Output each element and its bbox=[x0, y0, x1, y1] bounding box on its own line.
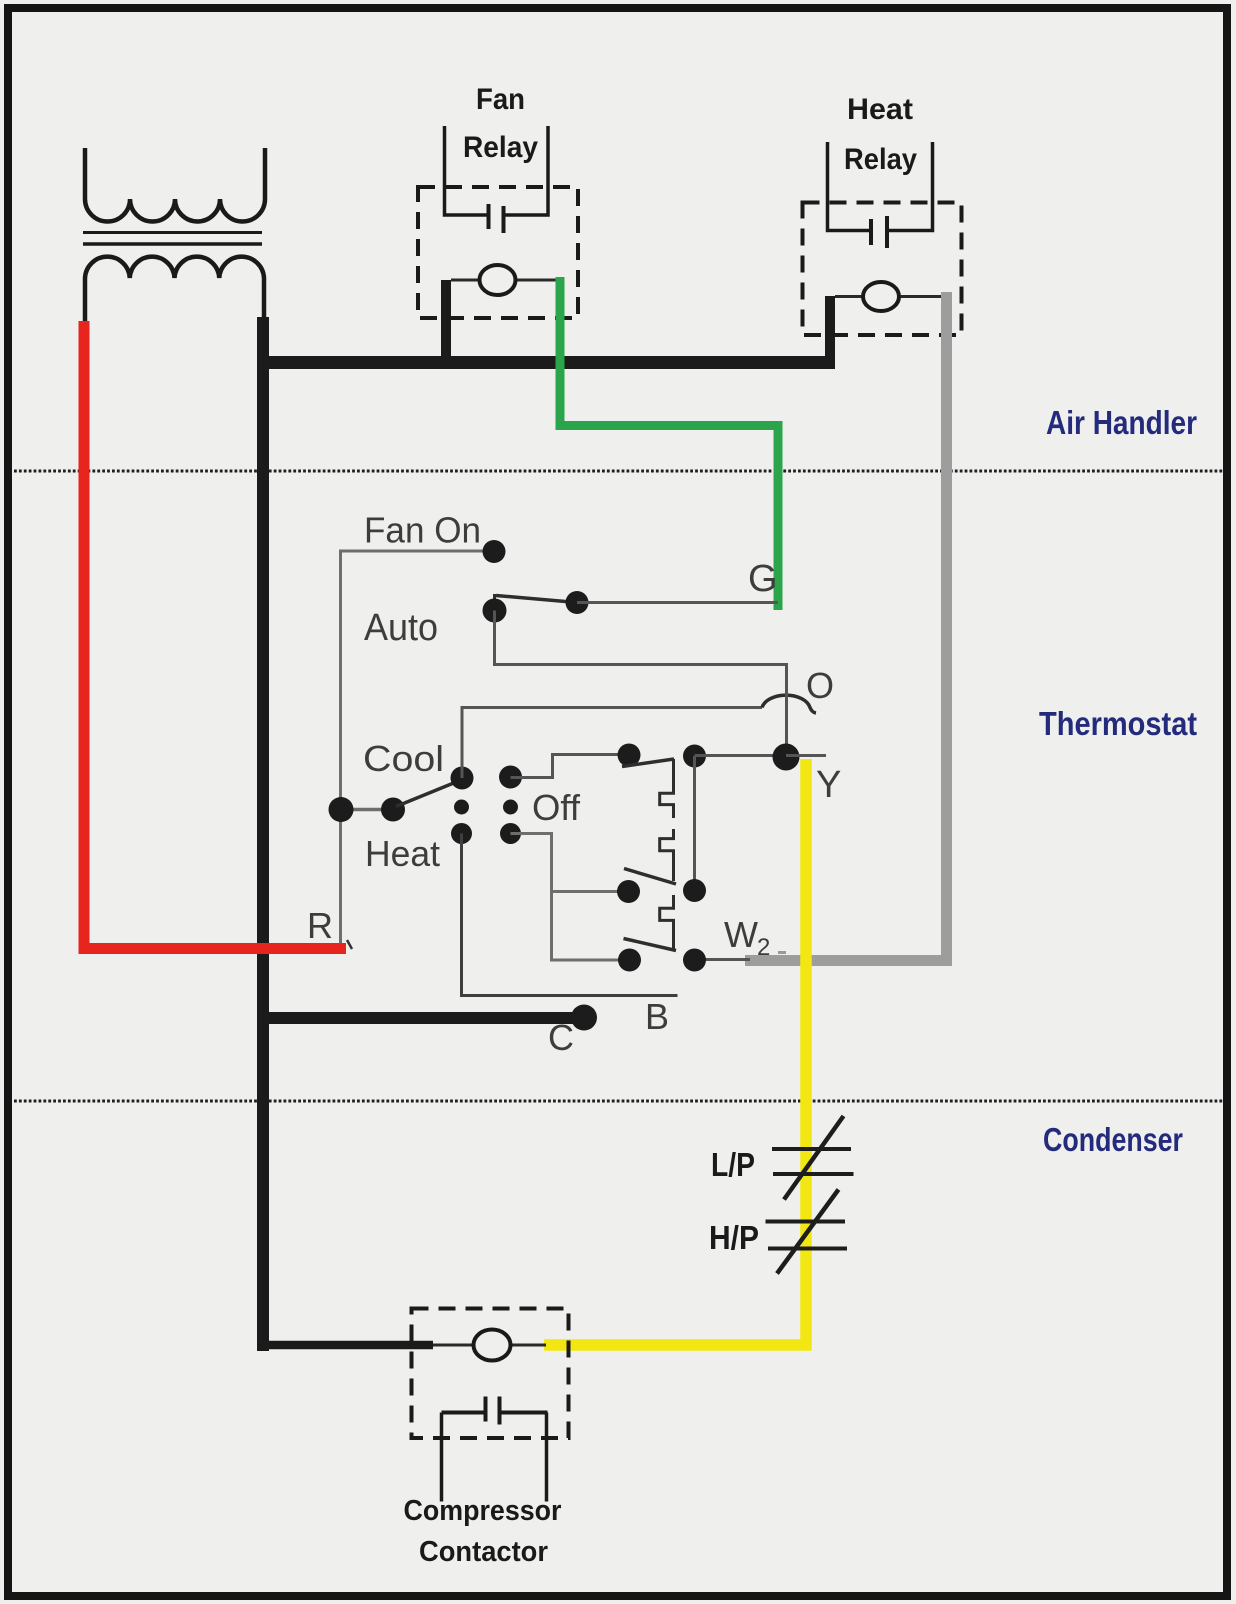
compressor contactor contact legs bbox=[440, 1413, 444, 1502]
node heat stage 1 right dot bbox=[683, 879, 706, 902]
compressor contactor N.O. contact bbox=[442, 1411, 486, 1415]
tick at red wire end bbox=[347, 940, 352, 949]
node heat stage 2 left dot bbox=[618, 949, 641, 972]
wire: black trunk from transformer secondary (hot/common) bbox=[257, 317, 269, 1351]
cooling contact blade bbox=[622, 759, 674, 767]
node Auto pivot dot bbox=[483, 599, 507, 623]
wire: W2 contact to gray wire bbox=[695, 958, 751, 961]
svg-text:R: R bbox=[307, 905, 333, 946]
wire: Y terminal stub bbox=[786, 754, 826, 757]
wire: green from fan relay to G terminal bbox=[560, 277, 778, 610]
heat relay N.O. contact with legs bbox=[828, 142, 872, 231]
wire: gray from heat relay to W2 bbox=[745, 292, 947, 961]
wire: R bus to selector pivot bbox=[341, 808, 393, 812]
fan relay dashed enclosure bbox=[418, 187, 578, 318]
L/P low pressure switch bbox=[772, 1147, 851, 1151]
wire: yellow Y to compressor contactor bbox=[544, 759, 806, 1345]
svg-text:B: B bbox=[645, 996, 669, 1037]
compressor contactor coil bbox=[474, 1330, 511, 1361]
node heat stage 1 left dot bbox=[617, 880, 640, 903]
wire: top feed to fan relay and heat relay bbox=[257, 356, 835, 369]
node selector pivot dot bbox=[381, 798, 405, 822]
wire: vertical tie from cooling contact to first heat contact bbox=[693, 756, 696, 891]
node heat stage 2 right dot (W2) bbox=[683, 949, 706, 972]
svg-text:G: G bbox=[748, 558, 778, 600]
wire: O line across to O terminal bbox=[461, 706, 763, 709]
wire: Heat right contact feed to heating stages bbox=[511, 834, 631, 961]
svg-text:Air Handler: Air Handler bbox=[1046, 404, 1197, 441]
wire: C branch to thermostat common bbox=[257, 1012, 584, 1024]
node Y terminal dot bbox=[773, 744, 800, 771]
svg-text:Fan: Fan bbox=[476, 83, 525, 116]
H/P high pressure switch bbox=[766, 1220, 846, 1224]
svg-text:Fan On: Fan On bbox=[364, 510, 481, 551]
transformer T1 secondary winding bbox=[85, 257, 264, 322]
node cooling contact left dot bbox=[618, 744, 641, 767]
wire: Auto switch assembly bbox=[493, 594, 496, 611]
compressor contactor coil leads bbox=[433, 1344, 474, 1347]
svg-text:L/P: L/P bbox=[711, 1146, 755, 1183]
heat relay coil leads bbox=[835, 295, 863, 298]
svg-text:O: O bbox=[806, 665, 834, 706]
node Cool left contact dot bbox=[451, 767, 474, 790]
wire: Auto contact to G terminal bbox=[577, 601, 778, 604]
heat stage 2 blade (open) bbox=[624, 939, 677, 951]
node Auto right contact dot bbox=[566, 591, 589, 614]
svg-text:Compressor: Compressor bbox=[404, 1495, 562, 1527]
fan relay coil bbox=[480, 265, 516, 295]
svg-text:Relay: Relay bbox=[463, 131, 538, 164]
fan relay coil leads bbox=[451, 279, 480, 282]
wire: red secondary lead to R terminal bbox=[84, 321, 346, 949]
selector switch blade (set to Cool) bbox=[396, 780, 461, 807]
mechanical linkage of ganged switch bbox=[660, 759, 674, 949]
svg-text:Off: Off bbox=[532, 787, 581, 828]
svg-text:Heat: Heat bbox=[847, 93, 913, 126]
svg-text:Contactor: Contactor bbox=[419, 1536, 548, 1568]
svg-text:Auto: Auto bbox=[364, 607, 438, 649]
node R bus junction dot bbox=[329, 797, 354, 822]
node Fan On terminal dot bbox=[483, 540, 506, 563]
heat relay coil bbox=[863, 282, 899, 311]
svg-text:H/P: H/P bbox=[709, 1219, 759, 1256]
compressor contactor dashed enclosure bbox=[412, 1309, 569, 1439]
section divider Air Handler / Thermostat bbox=[14, 470, 1223, 473]
wire: branch to compressor contactor coil bbox=[257, 1341, 433, 1350]
wire: stub up to heat relay coil bbox=[825, 296, 835, 362]
wire: Heat left contact down to B terminal bbox=[462, 834, 678, 996]
wire: Fan On lead down to R bus bbox=[341, 551, 495, 810]
heat relay dashed enclosure bbox=[803, 203, 962, 336]
auto fan switch blade bbox=[496, 596, 577, 603]
svg-text:Condenser: Condenser bbox=[1043, 1121, 1183, 1158]
node Cool right contact dot bbox=[499, 766, 522, 789]
svg-text:Y: Y bbox=[816, 764, 841, 806]
svg-text:C: C bbox=[548, 1017, 574, 1058]
node C terminal dot bbox=[571, 1005, 597, 1031]
wire: R terminal lead down to red wire bbox=[339, 810, 342, 944]
wire: Cool right contact to cooling switch bbox=[511, 755, 630, 778]
svg-text:2: 2 bbox=[757, 934, 770, 961]
heat stage 1 blade (open) bbox=[624, 869, 676, 885]
wire: cooling contact to Y terminal bbox=[695, 754, 787, 757]
svg-text:Cool: Cool bbox=[363, 738, 444, 779]
node Heat position dots bbox=[451, 823, 472, 844]
transformer T1 primary winding bbox=[85, 148, 265, 222]
wire: stub up to fan relay coil bbox=[441, 280, 451, 362]
wire: Auto pivot down and across to Y feed bbox=[495, 611, 787, 758]
svg-text:W: W bbox=[724, 914, 758, 955]
node Off position dots bbox=[454, 800, 469, 815]
transformer T1 core bbox=[83, 231, 262, 234]
svg-text:Relay: Relay bbox=[844, 143, 917, 176]
fan relay N.O. contact with legs bbox=[445, 126, 489, 215]
wire: branch to first heat stage contact bbox=[552, 890, 629, 893]
node cooling contact right dot bbox=[683, 745, 706, 768]
wire hop at O over Y feed bbox=[762, 695, 816, 713]
wire: Cool contact up to O line bbox=[461, 708, 464, 779]
svg-text:Heat: Heat bbox=[365, 833, 440, 874]
svg-text:Thermostat: Thermostat bbox=[1039, 705, 1197, 742]
section divider Thermostat / Condenser bbox=[14, 1100, 1223, 1103]
